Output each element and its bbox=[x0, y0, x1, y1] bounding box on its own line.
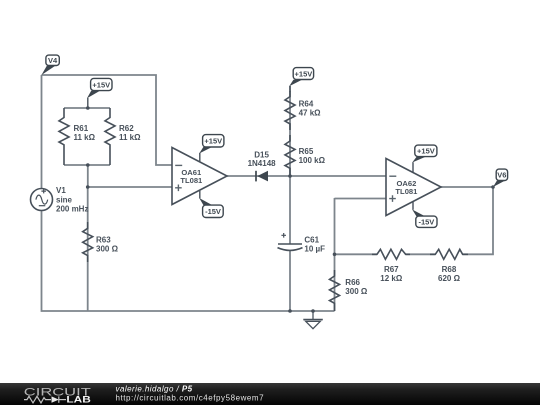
svg-text:C61: C61 bbox=[304, 235, 319, 244]
svg-text:10 µF: 10 µF bbox=[304, 245, 325, 254]
svg-text:1N4148: 1N4148 bbox=[248, 159, 277, 168]
svg-text:620 Ω: 620 Ω bbox=[438, 274, 461, 283]
svg-text:valerie.hidalgo / P5: valerie.hidalgo / P5 bbox=[116, 384, 193, 393]
svg-text:V4: V4 bbox=[48, 56, 58, 65]
svg-text:V6: V6 bbox=[497, 171, 506, 180]
svg-text:+15V: +15V bbox=[204, 137, 222, 146]
svg-text:R61: R61 bbox=[74, 124, 89, 133]
svg-text:11 kΩ: 11 kΩ bbox=[74, 133, 96, 142]
svg-text:-15V: -15V bbox=[418, 218, 434, 227]
svg-text:300 Ω: 300 Ω bbox=[96, 245, 119, 254]
svg-text:300 Ω: 300 Ω bbox=[345, 287, 368, 296]
svg-text:+15V: +15V bbox=[417, 147, 435, 156]
svg-text:R65: R65 bbox=[299, 147, 314, 156]
svg-text:R63: R63 bbox=[96, 235, 111, 244]
svg-text:V1: V1 bbox=[56, 186, 66, 195]
svg-text:100 kΩ: 100 kΩ bbox=[299, 156, 326, 165]
svg-text:sine: sine bbox=[56, 195, 73, 204]
svg-text:-15V: -15V bbox=[205, 207, 221, 216]
svg-text:47 kΩ: 47 kΩ bbox=[299, 109, 322, 118]
svg-text:200 mHz: 200 mHz bbox=[56, 205, 88, 214]
svg-text:TL081: TL081 bbox=[180, 176, 203, 185]
svg-text:R66: R66 bbox=[345, 278, 360, 287]
svg-text:TL081: TL081 bbox=[395, 187, 418, 196]
svg-text:+15V: +15V bbox=[92, 80, 110, 89]
svg-text:+15V: +15V bbox=[295, 69, 313, 78]
svg-text:R68: R68 bbox=[442, 265, 457, 274]
svg-text:R62: R62 bbox=[119, 124, 134, 133]
svg-text:12 kΩ: 12 kΩ bbox=[380, 274, 403, 283]
svg-text:11 kΩ: 11 kΩ bbox=[119, 133, 141, 142]
svg-text:LAB: LAB bbox=[66, 395, 90, 405]
svg-text:R64: R64 bbox=[299, 99, 314, 108]
svg-text:http://circuitlab.com/c4efpy58: http://circuitlab.com/c4efpy58ewem7 bbox=[116, 394, 265, 403]
svg-text:R67: R67 bbox=[384, 265, 399, 274]
